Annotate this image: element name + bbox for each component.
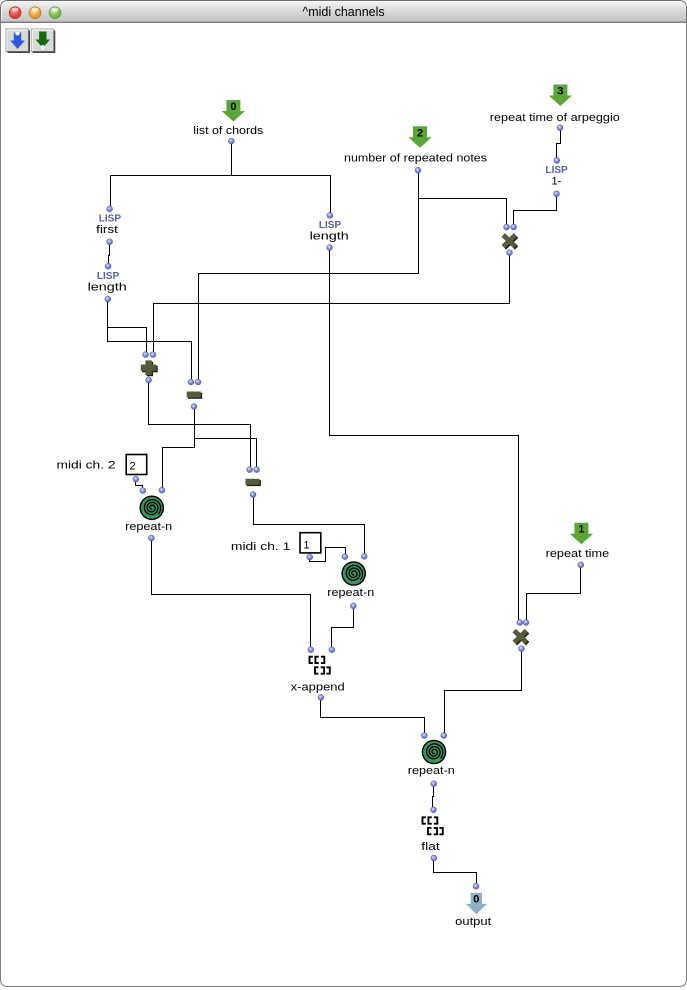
value box 1 [300, 533, 321, 560]
repeat-n box 3 [408, 733, 455, 787]
svg-text:repeat-n: repeat-n [125, 521, 172, 533]
wire arrow3 to LISP-1minus [557, 129, 561, 160]
svg-text:1: 1 [578, 524, 584, 536]
svg-text:x-append: x-append [291, 681, 345, 693]
wire LISP-length-left to minus1-in1 [108, 300, 192, 382]
svg-text:3: 3 [557, 86, 563, 98]
operator times 1 [503, 224, 516, 256]
svg-text:LISP: LISP [97, 271, 120, 282]
node arrow3 out [557, 125, 563, 131]
svg-text:length: length [310, 231, 349, 243]
box LISP first [96, 206, 121, 245]
svg-text:1-: 1- [552, 176, 562, 188]
svg-text:list of chords: list of chords [193, 125, 264, 137]
input arrow 1 [570, 523, 593, 545]
value box 2 [126, 455, 147, 483]
svg-text:length: length [88, 282, 127, 294]
output arrow 0 [466, 893, 487, 915]
wire value1-box to repeatn2-in1 [310, 548, 346, 562]
title bar [0, 1, 687, 23]
wire x-append to repeatn3-in1 [321, 698, 425, 735]
svg-text:0: 0 [230, 101, 236, 113]
svg-text:2: 2 [417, 127, 423, 139]
wire LISP-length-left to plus-in1 [108, 300, 147, 354]
input arrow 2 [408, 126, 431, 148]
svg-text:repeat-n: repeat-n [327, 587, 374, 599]
wire minus2 to repeatn2-in2 [254, 496, 365, 556]
box LISP length mid [310, 212, 349, 250]
svg-text:0: 0 [473, 894, 479, 906]
box flat [421, 807, 443, 861]
node arrow1 out [578, 562, 584, 568]
operator minus 1 [187, 379, 203, 410]
svg-text:LISP: LISP [545, 165, 568, 176]
operator plus [141, 352, 158, 383]
node arrow0 out [228, 138, 234, 144]
PATCH [108, 129, 581, 886]
wire arrow1 to times2-in2 [527, 566, 581, 622]
svg-text:output: output [455, 916, 491, 928]
box LISP 1- [545, 158, 568, 197]
wire times1 to plus-in2 [154, 254, 510, 354]
node arrow2 out [415, 167, 421, 173]
wire flat to output [434, 859, 477, 886]
toolbar button blue down-arrow [6, 29, 29, 52]
input arrow 3 [549, 85, 572, 107]
svg-text:midi ch. 1: midi ch. 1 [231, 541, 291, 553]
repeat-n box 1 [125, 487, 172, 541]
wire minus1 to minus2-in2 [195, 408, 257, 469]
svg-text:repeat-n: repeat-n [408, 765, 455, 777]
svg-text:flat: flat [421, 841, 440, 853]
wire LISP-length-mid to times2-in1 [330, 249, 519, 622]
wire repeatn3 to flat [433, 785, 434, 809]
operator times 2 [514, 620, 529, 652]
wire minus1 to repeatn1-in2 [163, 408, 195, 490]
svg-text:LISP: LISP [99, 213, 122, 224]
svg-text:midi ch. 2: midi ch. 2 [57, 459, 116, 471]
wire arrow0 to LISP-first [111, 143, 232, 209]
svg-text:^midi channels: ^midi channels [302, 5, 384, 19]
wire arrow2 to times1-in1 [419, 171, 507, 227]
wire arrow0 to LISP-length-mid [232, 143, 331, 215]
wire LISP-1minus to times1-in2 [514, 195, 557, 227]
wire arrow2 to minus1-in2 [199, 171, 419, 382]
traffic light minimize button [29, 7, 41, 19]
wire times2 to repeatn3-in2 [445, 650, 522, 735]
wire repeatn1 to x-append-in1 [152, 539, 311, 649]
box x-append [291, 647, 345, 701]
wire repeatn2 to x-append-in2 [332, 607, 354, 649]
svg-text:1: 1 [303, 539, 309, 551]
box LISP length left [88, 263, 127, 302]
svg-text:first: first [96, 224, 118, 236]
traffic light zoom button [49, 7, 61, 19]
operator minus 2 [245, 467, 261, 498]
svg-text:repeat time: repeat time [546, 548, 610, 560]
node output in [473, 883, 479, 889]
repeat-n box 2 [327, 553, 374, 609]
input arrow 0 [222, 100, 245, 122]
wire plus to minus2-in1 [149, 381, 251, 469]
wire LISP-first to LISP-length-left [109, 243, 110, 266]
traffic light close button [9, 7, 21, 19]
svg-text:repeat time of arpeggio: repeat time of arpeggio [490, 112, 620, 124]
svg-text:number of repeated notes: number of repeated notes [344, 153, 488, 165]
wire value2-box to repeatn1-in1 [136, 480, 143, 490]
svg-text:LISP: LISP [319, 220, 342, 231]
svg-text:2: 2 [130, 461, 136, 473]
toolbar button green down-arrow [31, 29, 54, 52]
